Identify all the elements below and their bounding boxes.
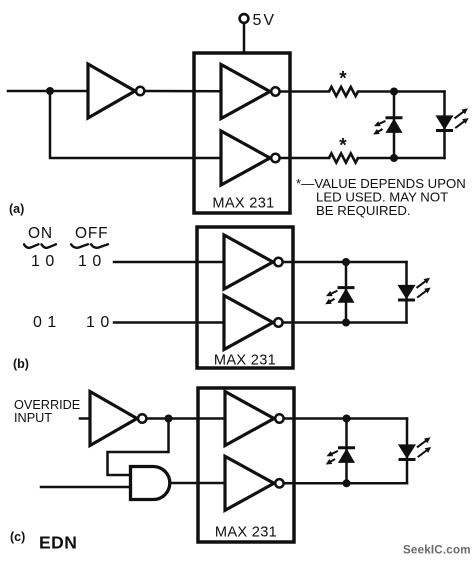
node bottom junction (b)	[342, 319, 350, 327]
wire U4 output to U5A (c)	[148, 417, 226, 420]
svg-text:MAX 231: MAX 231	[215, 525, 277, 541]
svg-text:EDN: EDN	[39, 533, 77, 553]
svg-text:ON: ON	[28, 225, 53, 242]
svg-text:1 0: 1 0	[31, 253, 55, 270]
wire right branch (b)	[405, 262, 408, 323]
wavy underline OFF	[71, 244, 108, 248]
buffer U5B (c)	[225, 456, 284, 510]
inverter U4 (c)	[90, 392, 146, 446]
label (c)	[10, 530, 25, 544]
label 5V	[253, 12, 277, 29]
LED D4 (b)	[398, 278, 431, 300]
wire LED D3 branch (b)	[345, 262, 348, 323]
svg-text:(a): (a)	[9, 202, 24, 216]
LED D3 (b)	[325, 288, 354, 305]
svg-text:SeekIC.com: SeekIC.com	[403, 544, 471, 557]
svg-text:MAX 231: MAX 231	[214, 353, 276, 369]
table row1 OFF value	[78, 253, 102, 270]
buffer U3B (b)	[224, 296, 283, 350]
wire R2 to LEDs (a)	[358, 157, 445, 160]
label (a)	[9, 202, 24, 216]
supply terminal 5V circle	[240, 14, 249, 23]
label INPUT	[14, 411, 52, 425]
wire right branch (c)	[406, 419, 409, 484]
svg-text:BE REQUIRED.: BE REQUIRED.	[316, 203, 411, 218]
table row2 ON value	[33, 314, 57, 331]
label OVERRIDE	[14, 398, 80, 412]
LED D1 (a)	[373, 118, 402, 135]
svg-text:(b): (b)	[13, 357, 29, 371]
node bottom junction (a)	[390, 154, 398, 162]
AND gate U6 (c)	[131, 467, 170, 500]
LED D6 (c)	[399, 437, 432, 459]
node bottom junction (c)	[343, 479, 351, 487]
wire LED D5 branch (c)	[345, 419, 348, 484]
buffer U3A (b)	[224, 235, 283, 289]
inverter U1 (a)	[88, 64, 144, 118]
wire U2B output to R2 (a)	[281, 157, 329, 160]
svg-text:5V: 5V	[253, 12, 277, 29]
label EDN	[39, 533, 77, 553]
wire input1 (b)	[114, 261, 224, 264]
label (b)	[13, 357, 29, 371]
svg-text:*: *	[339, 69, 347, 90]
wire input2 (b)	[114, 321, 224, 324]
label MAX 231 (b)	[214, 353, 276, 369]
label * for R1	[339, 69, 347, 90]
wire U5A output (c)	[285, 417, 407, 420]
wire U1 output to U2A input (a)	[146, 90, 222, 93]
IC U2 MAX231 box (a)	[194, 53, 290, 213]
svg-text:*: *	[339, 136, 347, 157]
wire input stub (c)	[80, 417, 90, 420]
resistor R1	[329, 87, 358, 96]
note value depends line3	[316, 203, 411, 218]
IC U3 MAX231 box (b)	[197, 227, 293, 368]
wire branch to U2B input (a)	[50, 91, 221, 158]
LED D2 (a)	[436, 108, 469, 130]
node top junction (b)	[342, 258, 350, 266]
wire U3A output (b)	[284, 261, 407, 264]
svg-text:MAX 231: MAX 231	[212, 196, 274, 212]
label * for R2	[339, 136, 347, 157]
svg-text:0 1: 0 1	[33, 314, 57, 331]
wire R1 to LEDs (a)	[358, 90, 445, 93]
buffer U5A (c)	[225, 392, 284, 446]
label MAX 231 (c)	[215, 525, 277, 541]
resistor R2	[329, 153, 358, 162]
table row1 ON value	[31, 253, 55, 270]
wire AND bottom input (c)	[41, 486, 131, 489]
buffer U2B (a)	[221, 131, 280, 185]
note value depends line1	[296, 176, 466, 191]
svg-text:INPUT: INPUT	[14, 411, 52, 425]
LED D5 (c)	[326, 448, 355, 465]
wire AND output to U5B (c)	[170, 482, 225, 485]
svg-text:OFF: OFF	[75, 225, 108, 242]
wire U5B output (c)	[285, 482, 407, 485]
wire U2A output to R1 (a)	[281, 90, 329, 93]
table row2 OFF value	[86, 314, 110, 331]
wire 5V to U2 (a)	[243, 23, 246, 54]
svg-text:1 0: 1 0	[78, 253, 102, 270]
wire input (a)	[8, 90, 88, 93]
svg-text:1 0: 1 0	[86, 314, 110, 331]
wire U3B output (b)	[284, 321, 407, 324]
note value depends line2	[316, 190, 448, 205]
wire LED D1 branch (a)	[393, 92, 396, 159]
wavy underline ON	[24, 244, 56, 248]
buffer U2A (a)	[221, 65, 280, 119]
node top junction (c)	[343, 415, 351, 423]
IC U5 MAX231 box (c)	[198, 388, 294, 542]
svg-text:(c): (c)	[10, 530, 25, 544]
wire feedback to AND gate (c)	[108, 419, 169, 476]
wire right branch (a)	[443, 92, 446, 159]
svg-text:OVERRIDE: OVERRIDE	[14, 398, 80, 412]
node inverter output junction (c)	[165, 415, 173, 423]
table header OFF	[75, 225, 108, 242]
label MAX 231 (a)	[212, 196, 274, 212]
node top junction (a)	[390, 88, 398, 96]
watermark SeekIC.com	[403, 544, 471, 557]
node input junction (a)	[46, 87, 54, 95]
table header ON	[28, 225, 53, 242]
